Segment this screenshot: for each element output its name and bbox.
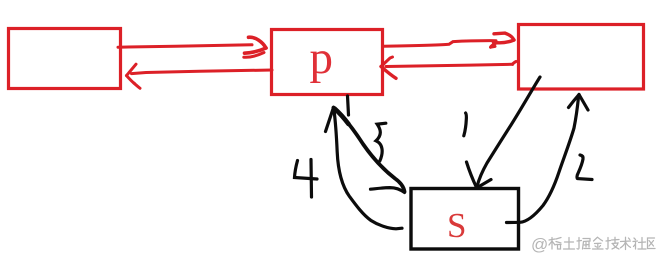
wire left-to-p	[118, 45, 252, 47]
arrowhead p-to-right	[494, 33, 514, 40]
wire p-bottom stub	[348, 96, 349, 115]
arrowhead down at s (edge 1)	[467, 162, 477, 188]
node s-box	[411, 189, 519, 250]
arrowhead up at p (for edge 4)	[326, 108, 334, 132]
label digit 1	[464, 113, 467, 136]
金	[593, 237, 604, 249]
label digit 2	[577, 155, 592, 180]
arrowhead right-to-p	[381, 57, 393, 67]
社	[633, 238, 646, 250]
区	[648, 238, 656, 249]
label digit 3	[376, 123, 386, 161]
watermark "@稀土掘金技术社区"	[531, 235, 655, 254]
svg-text:p: p	[310, 32, 334, 84]
wire right-to-p	[513, 62, 517, 65]
node right-box	[519, 25, 644, 90]
svg-text:S: S	[447, 206, 466, 245]
svg-text:@: @	[531, 235, 548, 254]
掘	[577, 238, 590, 250]
wire p-to-right	[384, 41, 497, 47]
wire edge 2 (s to right box)	[507, 97, 579, 223]
node left-box	[9, 29, 121, 89]
arrowhead p-to-left	[127, 64, 137, 75]
技	[606, 237, 619, 249]
arrowhead left-to-p	[249, 37, 267, 48]
wire edge 4 (s to p)	[334, 110, 402, 229]
wire p-to-left	[132, 70, 273, 74]
node p-box	[272, 30, 383, 95]
土	[564, 238, 575, 250]
wire edge 1 (right box to s)	[477, 77, 540, 187]
术	[621, 237, 631, 249]
稀	[549, 238, 561, 250]
wire edge 3 (p to s, hooked end)	[334, 108, 405, 192]
label digit 4	[295, 161, 318, 180]
arrowhead up at right box (edge 2)	[569, 95, 580, 108]
